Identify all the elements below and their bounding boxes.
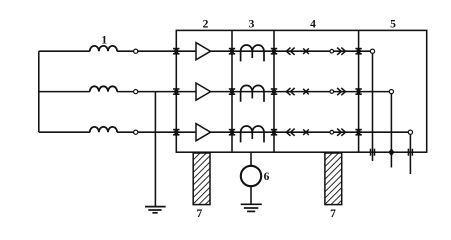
svg-text:7: 7 [197, 208, 203, 220]
svg-text:6: 6 [264, 171, 270, 183]
svg-text:2: 2 [203, 19, 209, 31]
svg-text:1: 1 [101, 35, 107, 47]
svg-text:7: 7 [330, 208, 336, 220]
svg-text:4: 4 [310, 19, 316, 31]
svg-text:3: 3 [249, 19, 255, 31]
svg-text:5: 5 [390, 19, 396, 31]
